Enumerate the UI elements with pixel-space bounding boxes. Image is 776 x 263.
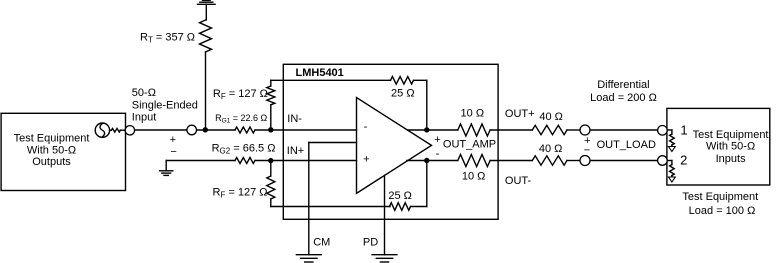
svg-text:With 50-Ω: With 50-Ω — [706, 141, 755, 153]
svg-text:50-Ω: 50-Ω — [132, 87, 156, 99]
svg-text:25 Ω: 25 Ω — [391, 88, 415, 100]
svg-text:-: - — [436, 148, 440, 160]
svg-text:10 Ω: 10 Ω — [462, 171, 486, 183]
svg-text:IN-: IN- — [287, 113, 302, 125]
svg-text:Input: Input — [132, 112, 156, 124]
svg-text:−: − — [584, 145, 590, 157]
svg-text:1: 1 — [680, 123, 687, 138]
svg-text:+: + — [434, 134, 440, 146]
svg-text:OUT+: OUT+ — [505, 108, 535, 120]
svg-text:With 50-Ω: With 50-Ω — [27, 144, 76, 156]
svg-text:OUT_LOAD: OUT_LOAD — [597, 139, 656, 151]
svg-text:Test Equipment: Test Equipment — [682, 191, 758, 203]
svg-text:Load = 100 Ω: Load = 100 Ω — [689, 205, 756, 217]
svg-text:Outputs: Outputs — [32, 156, 71, 168]
svg-text:OUT-: OUT- — [505, 175, 532, 187]
svg-text:Load = 200 Ω: Load = 200 Ω — [590, 92, 657, 104]
svg-text:+: + — [170, 134, 176, 146]
svg-text:Single-Ended: Single-Ended — [132, 99, 198, 111]
svg-text:LMH5401: LMH5401 — [296, 67, 344, 79]
svg-text:−: − — [170, 146, 176, 158]
svg-text:PD: PD — [363, 237, 378, 249]
svg-text:Test Equipment: Test Equipment — [693, 129, 769, 141]
svg-text:+: + — [363, 153, 369, 165]
svg-text:IN+: IN+ — [287, 145, 304, 157]
svg-text:40 Ω: 40 Ω — [539, 143, 563, 155]
svg-text:Test Equipment: Test Equipment — [14, 133, 90, 145]
svg-text:25 Ω: 25 Ω — [388, 190, 412, 202]
svg-text:Differential: Differential — [597, 79, 649, 91]
svg-text:CM: CM — [313, 237, 330, 249]
svg-text:Inputs: Inputs — [716, 153, 746, 165]
svg-text:40 Ω: 40 Ω — [539, 111, 563, 123]
svg-text:2: 2 — [680, 153, 687, 168]
svg-text:OUT_AMP: OUT_AMP — [443, 138, 496, 150]
svg-text:-: - — [364, 121, 368, 133]
svg-text:10 Ω: 10 Ω — [461, 108, 485, 120]
